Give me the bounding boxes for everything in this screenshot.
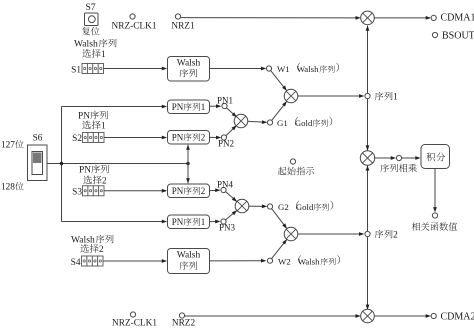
label xuanze1 (select 1): [82, 49, 91, 57]
svg-text:1: 1: [393, 93, 398, 103]
wire G1 to multiplier M-S1: [272, 102, 287, 121]
wire multiplier M-S2 to sequence2 node: [298, 233, 363, 235]
wire W1 to multiplier M-S1: [271, 71, 287, 91]
label xulie xiangcheng (sequence multiply): [380, 164, 389, 173]
svg-text:Gold: Gold: [296, 202, 314, 212]
wire bus to PN generator 1 (lower): [62, 221, 167, 223]
wire integrator to correlation output: [434, 169, 436, 212]
left selection bus vertical wire: [61, 107, 63, 222]
svg-text:2: 2: [201, 133, 206, 143]
svg-text:W2: W2: [278, 257, 291, 267]
svg-text:Walsh: Walsh: [177, 251, 201, 261]
wire PN generator 1 lower to PN3: [210, 221, 220, 223]
wire Walsh generator 1 to W1: [210, 68, 266, 70]
wire multiplier M-PN34 to G2: [249, 205, 266, 207]
svg-text:Gold: Gold: [295, 118, 313, 128]
svg-text:S1: S1: [71, 66, 81, 76]
multiplier M-PN12 (Gold combiner upper): [234, 114, 248, 128]
multiplier M-S1 (sequence 1 combiner): [284, 89, 298, 103]
vertical wire sequence1 to multipliers: [367, 26, 369, 150]
multiplier M-S2 (sequence 2 combiner): [284, 227, 298, 241]
wire multiplier M-PN12 to G1: [248, 121, 266, 122]
test point W2: [267, 258, 272, 263]
wire PN generator 2 upper to PN2: [210, 136, 221, 138]
vertical wire sequence2 to multipliers: [367, 166, 369, 310]
label fuwei (reset): [82, 27, 90, 35]
block PN sequence generator 2 (upper): [168, 131, 210, 145]
svg-text:PN: PN: [172, 133, 184, 143]
svg-text:S7: S7: [85, 3, 95, 13]
svg-text:PN: PN: [172, 102, 184, 112]
test point sequence product: [396, 155, 401, 160]
DIP switch S1: [82, 64, 104, 74]
label xuanze2 (select 2): [83, 176, 92, 184]
wire W2 to multiplier M-S2: [272, 240, 287, 259]
svg-text:NRZ1: NRZ1: [171, 22, 195, 32]
svg-text:Walsh: Walsh: [71, 235, 95, 246]
svg-text:Walsh: Walsh: [298, 257, 320, 267]
test point NRZ1: [175, 14, 180, 19]
svg-text:S2: S2: [72, 134, 82, 144]
test point PN3: [221, 219, 226, 224]
svg-text:S6: S6: [33, 134, 43, 144]
block Walsh sequence generator 1: [168, 57, 210, 82]
wire PN2 to multiplier M-PN12: [226, 126, 236, 136]
wire Walsh generator 2 to W2: [210, 260, 266, 262]
svg-text:2: 2: [102, 177, 107, 187]
label xulie1 (sequence 1): [375, 92, 384, 101]
wire bus to PN generator 1 (upper): [62, 106, 167, 108]
wire S1 to Walsh generator 1: [104, 68, 167, 70]
svg-text:PN: PN: [79, 166, 91, 176]
svg-text:W1: W1: [277, 64, 290, 74]
test point NRZ-CLK1 (bottom): [130, 312, 135, 317]
wire multiplier M3 to product test point: [375, 157, 395, 159]
svg-text:CDMA2: CDMA2: [441, 312, 474, 323]
label xuanze1 (select 1) group 1: [82, 121, 91, 129]
wire PN generator 1 upper to PN1: [210, 105, 221, 107]
svg-text:PN4: PN4: [217, 180, 234, 190]
test point start indicator (qishi zhishi): [290, 159, 295, 164]
wire multiplier M1 to CDMA1: [374, 17, 430, 19]
label xiangguan hanshuzhi (correlation function value): [412, 222, 420, 230]
wire NRZ2 to multiplier M2: [185, 315, 360, 317]
svg-text:2: 2: [99, 245, 104, 255]
wire PN1 to multiplier M-PN12: [227, 108, 237, 117]
wire S3 to PN generator 2 (lower): [104, 190, 166, 192]
svg-text:CDMA1: CDMA1: [441, 13, 474, 24]
multiplier M2 (CDMA2 output): [361, 309, 375, 323]
multiplier M-PN34 (Gold combiner lower): [235, 199, 249, 213]
test point NRZ-CLK1 (top): [130, 14, 135, 19]
wire NRZ1 to multiplier M1: [181, 17, 360, 19]
DIP switch S3: [83, 186, 105, 196]
DIP switch S2: [83, 133, 105, 143]
junction dot on bus: [60, 162, 63, 165]
svg-text:S4: S4: [71, 258, 81, 268]
label xuanze2 (select 2) walsh: [80, 244, 89, 252]
svg-text:PN: PN: [172, 217, 184, 227]
svg-text:PN1: PN1: [217, 96, 233, 106]
wire S2 to PN generator 2 (upper): [104, 137, 166, 139]
wire multiplier M2 to CDMA2: [374, 315, 430, 317]
slide switch S6: [28, 145, 48, 181]
test point W1: [266, 66, 271, 71]
svg-text:PN2: PN2: [218, 139, 234, 149]
svg-text:NRZ2: NRZ2: [172, 319, 196, 329]
control wire between PN generator 2 blocks: [187, 145, 189, 183]
svg-text:BSOUT: BSOUT: [442, 31, 474, 42]
junction dot at PN2 control line: [186, 162, 189, 165]
wire S6 to bus junction: [47, 163, 188, 165]
svg-text:Walsh: Walsh: [74, 39, 98, 50]
svg-text:PN: PN: [172, 186, 184, 196]
label xulie2 (sequence 2): [375, 230, 384, 239]
DIP switch S4: [82, 256, 104, 266]
block integrator (jifen): [421, 145, 450, 169]
label qishi zhishi (start indication): [278, 167, 287, 175]
svg-text:Walsh: Walsh: [297, 64, 319, 74]
test point CDMA2: [431, 313, 436, 318]
wire G2 to multiplier M-S2: [272, 209, 287, 229]
test point G1: [267, 120, 272, 125]
wire PN3 to multiplier M-PN34: [226, 211, 237, 220]
push-button S7 (reset): [85, 13, 99, 26]
wire product test point to integrator: [402, 157, 420, 159]
test point NRZ2: [179, 313, 184, 318]
test point G2: [267, 204, 272, 209]
svg-text:1: 1: [101, 50, 106, 60]
svg-text:NRZ-CLK1: NRZ-CLK1: [112, 22, 157, 32]
wire PN4 to multiplier M-PN34: [226, 192, 237, 202]
wire multiplier M-S1 to sequence1 node: [298, 95, 363, 97]
svg-text:128: 128: [1, 183, 15, 193]
test point sequence2 (xulie2): [365, 231, 370, 236]
block PN sequence generator 2 (lower): [168, 184, 210, 198]
wire PN generator 2 lower to PN4: [210, 189, 220, 191]
svg-text:PN3: PN3: [219, 223, 236, 233]
multiplier M1 (CDMA1 output): [361, 11, 375, 25]
multiplier M3 (correlator): [360, 151, 374, 165]
test point sequence1 (xulie1): [365, 93, 370, 98]
wire S4 to Walsh generator 2: [103, 260, 166, 262]
svg-text:2: 2: [201, 186, 206, 196]
svg-text:G1: G1: [277, 118, 288, 128]
test point PN4: [221, 187, 226, 192]
svg-text:PN: PN: [78, 112, 90, 122]
svg-text:NRZ-CLK1: NRZ-CLK1: [112, 319, 157, 329]
block PN sequence generator 1 (upper): [168, 100, 210, 114]
svg-text:1: 1: [201, 217, 206, 227]
test point BSOUT: [432, 32, 437, 37]
test point correlation value: [432, 213, 437, 218]
svg-text:S3: S3: [72, 188, 82, 198]
svg-text:1: 1: [101, 122, 106, 132]
block Walsh sequence generator 2: [168, 249, 210, 274]
svg-text:127: 127: [1, 141, 15, 151]
svg-text:1: 1: [201, 102, 206, 112]
svg-text:2: 2: [393, 231, 398, 241]
svg-text:G2: G2: [278, 202, 289, 212]
test point CDMA1: [431, 15, 436, 20]
test point PN2: [221, 135, 226, 140]
svg-text:Walsh: Walsh: [177, 59, 201, 69]
test point PN1: [222, 103, 227, 108]
block PN sequence generator 1 (lower): [168, 215, 210, 229]
